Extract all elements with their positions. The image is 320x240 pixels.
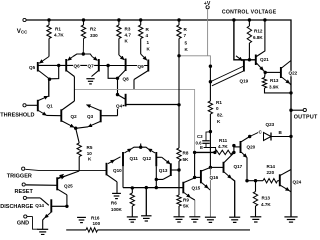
svg-text:Q2: Q2 — [71, 114, 78, 119]
svg-text:5K: 5K — [183, 204, 190, 209]
svg-text:Q14: Q14 — [35, 203, 44, 208]
svg-text:6.8K: 6.8K — [253, 35, 263, 40]
transistor Q1 — [37, 100, 39, 112]
transistor Q8 — [125, 59, 127, 72]
node bus-Q12 — [155, 186, 158, 189]
svg-text:R3: R3 — [125, 27, 131, 32]
node rail-Q21 — [263, 18, 266, 21]
wire Q17 emitter down — [232, 179, 235, 218]
node ref-b — [209, 80, 212, 83]
svg-text:Q23: Q23 — [266, 122, 275, 127]
wire Q22 emitter join — [290, 84, 291, 86]
transistor Q6 — [65, 59, 67, 72]
node rail-R1 — [47, 18, 50, 21]
Vcc terminal — [23, 18, 26, 21]
resistor R6 100K — [130, 193, 134, 206]
node Q7-Q8 — [106, 64, 109, 67]
svg-text:5K: 5K — [183, 157, 190, 162]
node bus-gnd — [145, 186, 148, 189]
wire Q6-Q7 emitter yoke — [73, 54, 92, 57]
node ref-a — [209, 65, 212, 68]
node Q17 base — [209, 166, 212, 169]
node rail-R4 — [139, 18, 142, 21]
node Q20emitter-R13 — [245, 179, 248, 182]
wire R13b bottom lead — [255, 206, 257, 217]
wire R11 left lead — [195, 151, 215, 153]
node R11 left2 — [213, 151, 216, 154]
node output-R13 — [289, 91, 292, 94]
node rail-Q19 drop — [232, 18, 235, 21]
ground Q10 — [112, 192, 121, 194]
wire R4 top lead — [140, 20, 142, 25]
node Q8 collector — [116, 77, 119, 80]
resistor R5 10K — [77, 143, 81, 157]
node rail-R7 — [177, 18, 180, 21]
wire Q13 collector — [163, 176, 170, 180]
svg-text:R13: R13 — [270, 78, 279, 83]
node R13b top — [254, 179, 257, 182]
wire divider upper — [178, 56, 180, 148]
svg-text:VCC: VCC — [17, 28, 28, 35]
svg-text:Q25: Q25 — [64, 183, 73, 188]
node rail-R3 — [117, 18, 120, 21]
transistor Q5 — [37, 62, 39, 72]
node Q12-Q13 — [155, 178, 158, 181]
svg-text:Q15: Q15 — [192, 186, 201, 191]
wire E line — [204, 148, 216, 153]
wire mid vertical to ground — [209, 167, 211, 217]
svg-text:R8: R8 — [183, 151, 189, 156]
transistor Q20 — [240, 141, 242, 153]
resistor R12 6.8K — [247, 26, 251, 43]
wire Q11 collector down — [122, 166, 124, 187]
wire Q13 emitter to Q12 base — [157, 156, 162, 158]
svg-text:5: 5 — [185, 41, 188, 46]
node Q14 collector — [65, 205, 68, 208]
ground R9 — [174, 216, 185, 218]
wire Q1 emitter to Q2 — [47, 114, 62, 116]
wire Q3 emitter to node — [77, 127, 88, 128]
+V terminal — [206, 6, 209, 9]
svg-text:Q9: Q9 — [138, 64, 145, 69]
svg-text:Q8: Q8 — [123, 77, 130, 82]
wire trigger lead — [25, 169, 40, 170]
svg-text:Q6: Q6 — [74, 63, 81, 68]
node Q8-Q4 — [116, 93, 119, 96]
svg-text:220: 220 — [267, 170, 275, 175]
wire Q12 collector down — [156, 166, 163, 179]
wire Q15 emitter down — [191, 198, 195, 201]
wire R7 bottom lead divider — [178, 39, 180, 56]
ground mid — [205, 216, 216, 218]
wire R6 bottom lead — [131, 206, 133, 217]
resistor R11 4.7K — [215, 150, 233, 154]
ground Q14 emitter — [37, 228, 48, 230]
ground Q15 — [189, 216, 200, 218]
ground Q7 collector — [86, 78, 94, 80]
wire divider lower — [178, 161, 180, 195]
svg-text:Q22: Q22 — [289, 71, 298, 76]
transistor Q19 — [243, 61, 245, 72]
wire R6 top lead — [131, 188, 133, 193]
wire bottom rail right — [98, 229, 251, 231]
THRESHOLD terminal — [23, 104, 26, 107]
wire Q5 base-collector tie — [51, 65, 59, 78]
svg-text:CONTROL VOLTAGE: CONTROL VOLTAGE — [222, 9, 277, 15]
svg-text:4.7: 4.7 — [125, 33, 132, 38]
node Q20 collector — [248, 135, 251, 138]
transistor Q24 — [279, 174, 281, 186]
wire Q19 collector drop from rail — [234, 20, 256, 60]
svg-text:100: 100 — [93, 221, 101, 226]
svg-text:Q7: Q7 — [88, 63, 95, 68]
node R11 right — [232, 151, 235, 154]
wire R13 bottom lead — [265, 88, 292, 93]
wire comparator bus — [74, 89, 194, 152]
transistor Q3 — [100, 110, 102, 123]
node bus-R6 — [131, 186, 134, 189]
wire Q23 B lead — [271, 136, 291, 138]
wire R5 top lead — [76, 128, 80, 143]
resistor R7 5K — [177, 25, 181, 39]
wire discharge lead — [27, 197, 40, 199]
wire Q2 emitter to node — [74, 126, 76, 129]
svg-text:Q20: Q20 — [247, 145, 256, 150]
svg-text:Q3: Q3 — [87, 114, 94, 119]
svg-text:OUTPUT: OUTPUT — [294, 114, 318, 120]
wire Q9 collector down — [133, 80, 135, 90]
wire Q6-Q7 base link — [66, 64, 99, 66]
svg-text:Q16: Q16 — [210, 175, 219, 180]
node R11 left — [193, 151, 196, 154]
svg-text:Q21: Q21 — [260, 57, 269, 62]
svg-text:4.7K: 4.7K — [261, 202, 271, 207]
transistor Q12 — [155, 152, 157, 166]
wire R14 right lead — [278, 180, 280, 182]
svg-text:10: 10 — [87, 151, 93, 156]
node output-Q23 — [289, 135, 292, 138]
wire Q12 emitter corner — [141, 147, 148, 149]
wire R4 bottom lead — [140, 39, 142, 55]
wire Q5 collector down — [48, 79, 50, 97]
svg-text:Q13: Q13 — [159, 168, 168, 173]
svg-text:DISCHARGE: DISCHARGE — [0, 204, 33, 210]
svg-text:R1: R1 — [55, 27, 61, 32]
svg-text:Q24: Q24 — [293, 179, 302, 184]
wire Q20 emitter down — [246, 158, 248, 181]
transistor Q2 — [60, 109, 62, 122]
wire R10 bottom lead — [209, 114, 211, 132]
transistor Q10 — [106, 163, 108, 176]
transistor Q9 — [147, 60, 149, 72]
wire Q8 collector down — [117, 78, 119, 94]
svg-text:Q10: Q10 — [113, 168, 122, 173]
wire control-voltage drop — [207, 9, 209, 56]
svg-text:4.7K: 4.7K — [218, 144, 228, 149]
transistor Q11 — [122, 152, 124, 166]
wire R13 top lead — [264, 72, 267, 77]
wire CV node to divider — [179, 56, 210, 66]
wire R7 top lead — [178, 20, 180, 25]
wire reference mid line — [209, 66, 211, 101]
wire threshold lead — [27, 104, 38, 106]
resistor R2 330 — [81, 25, 85, 39]
svg-text:THRESHOLD: THRESHOLD — [0, 112, 34, 118]
svg-text:Q17: Q17 — [234, 164, 243, 169]
ground small mid-left — [77, 216, 86, 218]
svg-text:4: 4 — [146, 33, 149, 38]
wire Q24 emitter join — [290, 191, 292, 192]
TRIGGER terminal — [22, 167, 25, 170]
wire Q4 emitter riser — [117, 108, 119, 116]
wire R3 top lead — [118, 20, 120, 25]
svg-text:R16: R16 — [91, 215, 100, 220]
svg-text:Q11: Q11 — [130, 156, 139, 161]
wire R2 top lead — [83, 20, 85, 25]
wire emitter node stub — [140, 144, 142, 148]
wire R1 bottom lead — [48, 39, 50, 57]
svg-text:TRIGGER: TRIGGER — [7, 174, 32, 180]
node output tap — [289, 109, 292, 112]
wire Q16 base vertical — [194, 152, 196, 177]
svg-text:C3: C3 — [197, 134, 203, 139]
svg-text:100K: 100K — [111, 207, 123, 212]
svg-text:Q4: Q4 — [116, 104, 123, 109]
transistor Q23 diode connected — [264, 133, 272, 141]
node Q2-Q3 emitters — [74, 127, 77, 130]
resistor R9 5K — [177, 195, 181, 206]
transistor Q16 — [200, 170, 202, 183]
wire Q2 collector up — [73, 77, 75, 102]
svg-text:R11: R11 — [219, 138, 228, 143]
node Q11-Q12 emitters — [139, 146, 142, 149]
node rail-R2 — [82, 18, 85, 21]
resistor R14 220 — [263, 179, 278, 183]
wire R3 bottom lead — [118, 39, 120, 56]
wire bus ground drop — [145, 188, 147, 216]
wire Q16 emitter down — [208, 188, 210, 190]
svg-text:82.: 82. — [217, 113, 223, 118]
wire Q21 collector — [256, 20, 265, 57]
svg-text:R13: R13 — [262, 195, 271, 200]
svg-text:R12: R12 — [254, 29, 263, 34]
svg-text:Q19: Q19 — [240, 79, 249, 84]
svg-text:Q12: Q12 — [143, 156, 152, 161]
wire Q14 emitter down — [43, 218, 45, 229]
wire Q4 collector diag — [118, 95, 126, 99]
resistor R8 5K — [177, 148, 181, 161]
transistor Q7 — [98, 59, 100, 72]
DISCHARGE terminal — [23, 196, 26, 199]
svg-text:R5: R5 — [87, 145, 93, 150]
node Q16 base — [193, 176, 196, 179]
wire bottom rail left — [66, 229, 86, 231]
node divider CV — [177, 54, 180, 57]
ground R6 — [127, 216, 138, 218]
wire mid vertical to Q17 base — [209, 132, 211, 168]
resistor R10 82K — [208, 101, 212, 114]
node Q5 collector — [48, 78, 51, 81]
transistor Q14 — [50, 199, 52, 212]
transistor Q21 — [255, 55, 257, 66]
svg-text:E: E — [200, 145, 203, 150]
svg-text:R1: R1 — [216, 100, 222, 105]
wire Q7 to Q9 base — [99, 65, 149, 67]
wire Q10 collector ground lead — [116, 182, 118, 194]
wire flip-flop bus — [123, 187, 156, 189]
transistor Q15 — [182, 182, 184, 194]
OUTPUT terminal — [303, 108, 306, 111]
node Q6-Q7 emitters — [82, 52, 85, 55]
wire Q23 C lead — [250, 132, 259, 136]
svg-text:1: 1 — [147, 40, 150, 45]
wire R5 bottom lead — [78, 157, 80, 172]
wire R12 bottom lead — [248, 43, 250, 60]
wire gnd lead — [27, 216, 33, 218]
RESET terminal — [22, 183, 25, 186]
wire R14 left lead — [247, 180, 263, 182]
svg-text:Q5: Q5 — [29, 65, 36, 70]
ground R13b — [250, 216, 261, 218]
wire Q25 collector down — [66, 195, 68, 207]
svg-text:Q1: Q1 — [47, 103, 54, 108]
node divider-Q13 base — [177, 168, 180, 171]
GND terminal — [24, 215, 27, 218]
wire Q12 collector to bus — [155, 179, 157, 187]
wire Q20 base tie — [233, 146, 235, 153]
transistor Q17 — [223, 162, 225, 173]
node Q22 base — [264, 71, 267, 74]
wire C3 bottom lead — [205, 143, 207, 147]
wire output vertical — [290, 93, 292, 217]
transistor Q25 — [56, 177, 58, 190]
capacitor C3 — [202, 140, 210, 142]
svg-text:R9: R9 — [183, 198, 189, 203]
svg-text:R14: R14 — [267, 164, 276, 169]
ground bus — [141, 215, 151, 217]
svg-text:RESET: RESET — [15, 189, 34, 195]
svg-text:+V: +V — [204, 1, 211, 7]
node divider-Q4 base — [177, 103, 180, 106]
node R11 right top — [232, 144, 235, 147]
ground output stage — [284, 216, 297, 218]
node rail-R12 — [248, 18, 251, 21]
node R10-C3 — [209, 130, 212, 133]
wire R9 bottom lead — [178, 206, 180, 217]
svg-text:0: 0 — [216, 106, 219, 111]
wire Q21 emitter to node — [264, 71, 266, 73]
resistor R4 1K — [139, 25, 143, 39]
transistor Q13 — [170, 163, 172, 176]
svg-text:7: 7 — [184, 33, 187, 38]
transistor Q4 — [125, 94, 127, 107]
svg-text:R6: R6 — [111, 201, 117, 206]
ground Q17 — [229, 216, 240, 218]
node Q5 base — [57, 64, 60, 67]
wire R1 top lead — [48, 20, 50, 25]
svg-text:R2: R2 — [90, 27, 96, 32]
wire R12 top lead — [248, 20, 250, 26]
resistor R13 4.7K lower — [253, 192, 257, 207]
svg-text:GND: GND — [17, 221, 29, 227]
wire C3 top lead — [206, 132, 210, 141]
svg-text:330: 330 — [90, 33, 98, 38]
wire output stub — [291, 109, 303, 111]
wire Q8 base-collector tie — [108, 66, 117, 79]
svg-text:4.7K: 4.7K — [54, 33, 64, 38]
wire discharge diag — [40, 198, 49, 205]
wire R13b top lead — [255, 181, 257, 192]
top Vcc rail wire — [25, 20, 292, 93]
wire R5 to Q25 emitter — [64, 171, 80, 177]
resistor R3 4.7K — [117, 25, 121, 39]
svg-text:3.9K: 3.9K — [269, 85, 279, 90]
node Q21 base — [248, 58, 251, 61]
resistor R13 3.9K — [262, 78, 266, 89]
wire Q11 emitter corner — [132, 147, 141, 149]
wire R2 bottom lead — [82, 39, 84, 55]
wire reset lead — [26, 184, 57, 186]
resistor R1 4.7K — [47, 25, 51, 39]
transistor Q22 — [280, 67, 282, 78]
wire Q1 collector up — [48, 79, 50, 96]
